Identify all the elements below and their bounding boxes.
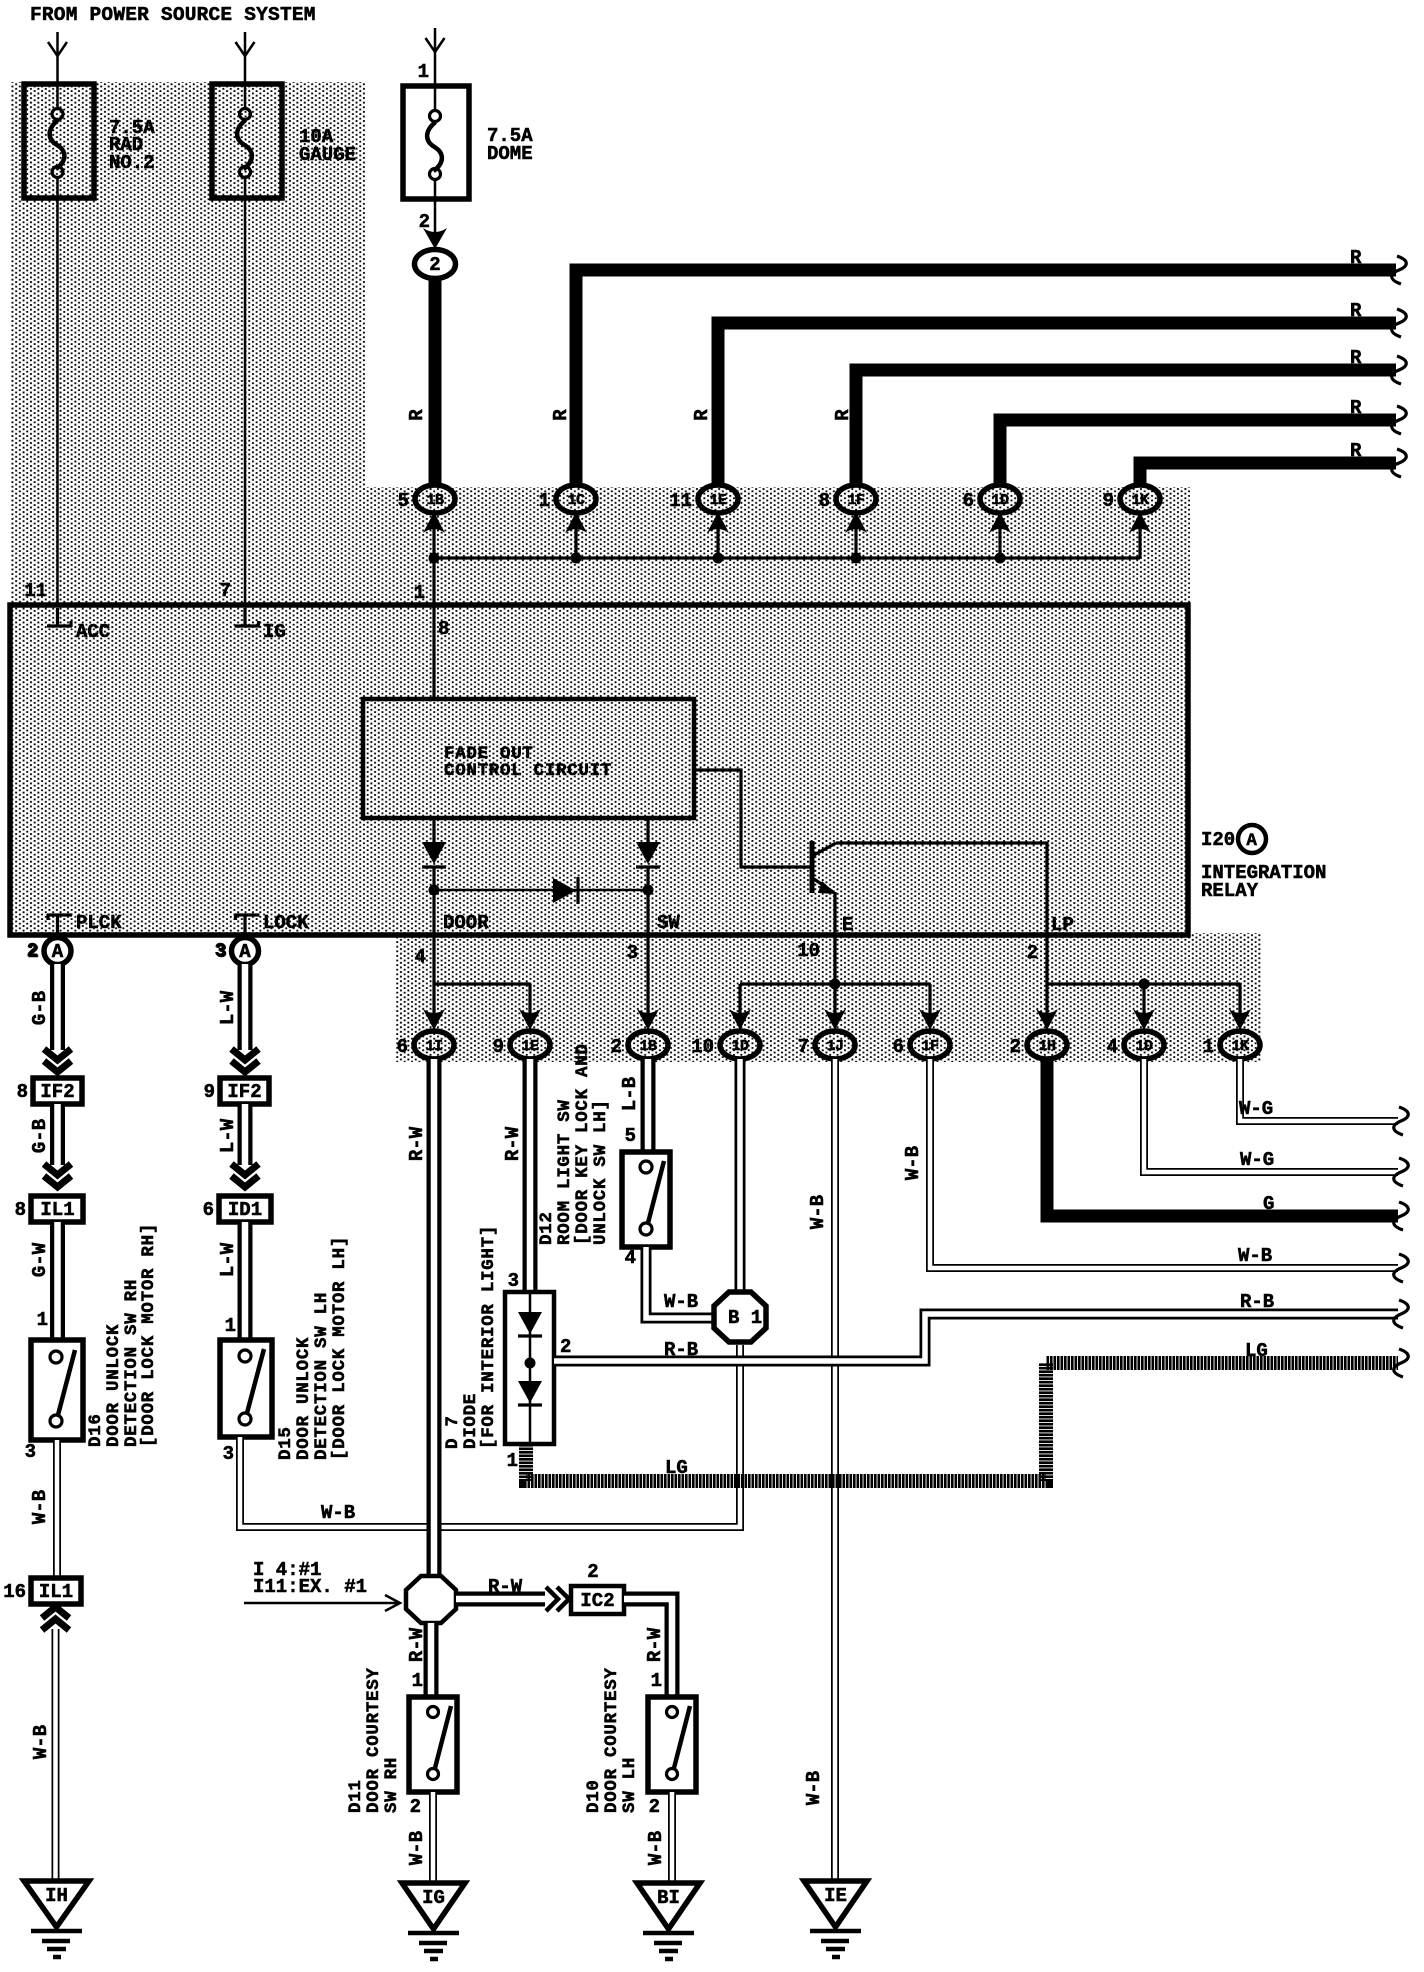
- svg-text:1F: 1F: [921, 1038, 939, 1055]
- svg-text:[DOOR LOCK MOTOR RH]: [DOOR LOCK MOTOR RH]: [139, 1223, 159, 1447]
- diode DI3 internal horizontal: [553, 877, 578, 904]
- svg-text:DOOR: DOOR: [443, 912, 489, 934]
- svg-text:R-W: R-W: [406, 1126, 428, 1161]
- svg-text:DOME: DOME: [487, 143, 533, 165]
- svg-text:2: 2: [611, 1036, 622, 1058]
- svg-text:IF2: IF2: [227, 1081, 261, 1103]
- svg-text:I11:EX. #1: I11:EX. #1: [253, 1576, 367, 1598]
- wire LG D7 pin1 to right edge: [526, 1363, 1398, 1481]
- ground IH: [24, 1881, 89, 1957]
- svg-text:IL1: IL1: [39, 1581, 73, 1603]
- junction dot SW internal: [643, 885, 654, 896]
- wire R to connector 1E: [718, 323, 1396, 487]
- svg-text:6: 6: [893, 1036, 904, 1058]
- svg-text:L-W: L-W: [217, 1118, 239, 1153]
- stem arrowhead into 1E bottom row: [519, 984, 541, 1030]
- svg-text:B 1: B 1: [728, 1307, 762, 1329]
- svg-text:2: 2: [560, 1336, 571, 1358]
- svg-text:1E: 1E: [521, 1038, 539, 1055]
- wire W-B D11 to ground IG: [429, 1792, 437, 1881]
- wire pin 8 to fade out circuit: [432, 605, 435, 701]
- fuse F3 7.5A DOME: [403, 86, 469, 199]
- svg-text:1C: 1C: [567, 492, 585, 509]
- svg-text:1K: 1K: [1131, 492, 1149, 509]
- svg-text:7: 7: [220, 580, 231, 602]
- svg-text:SW LH: SW LH: [620, 1757, 640, 1813]
- diode DI1: [422, 842, 446, 867]
- wire W-B to ground IH: [52, 1629, 60, 1879]
- svg-text:3: 3: [25, 1441, 36, 1463]
- label D10 DOOR COURTESY SW LH: [584, 1667, 640, 1813]
- label FADE OUT CONTROL CIRCUIT: [444, 744, 612, 781]
- chevron arrow into IF2 chain2: [232, 1049, 259, 1072]
- svg-text:1E: 1E: [709, 492, 727, 509]
- svg-text:SW RH: SW RH: [382, 1757, 402, 1813]
- svg-text:1J: 1J: [826, 1038, 843, 1055]
- svg-text:IG: IG: [422, 1887, 445, 1909]
- bus DOOR to 1I and 1E: [434, 982, 530, 985]
- svg-text:6: 6: [203, 1199, 214, 1221]
- stem and arrowhead into 1E: [707, 512, 729, 558]
- svg-text:SW: SW: [657, 912, 680, 934]
- svg-text:A: A: [239, 941, 251, 963]
- svg-text:[FOR INTERIOR LIGHT]: [FOR INTERIOR LIGHT]: [479, 1225, 499, 1449]
- chevron arrow into ID1: [232, 1164, 259, 1187]
- svg-text:R: R: [1350, 347, 1362, 369]
- svg-text:LOCK: LOCK: [263, 912, 309, 934]
- label D15 DOOR UNLOCK DETECTION SW LH: [276, 1236, 350, 1460]
- svg-text:BI: BI: [657, 1887, 680, 1909]
- wire R to connector 1K: [1140, 463, 1396, 487]
- svg-text:16: 16: [3, 1581, 26, 1603]
- wire G 1H to right edge: [1047, 1059, 1398, 1216]
- svg-text:NO.2: NO.2: [109, 152, 155, 174]
- chevron arrow into IL1 chain1: [44, 1164, 71, 1187]
- squiggle end W-G lower: [1394, 1158, 1409, 1186]
- node A circle pin 3 LOCK: [216, 938, 259, 965]
- wire R to connector 1F: [856, 370, 1396, 487]
- wire DI2 cathode to relay pin 3 SW: [646, 867, 649, 935]
- svg-text:R: R: [1350, 440, 1362, 462]
- svg-text:W-B: W-B: [406, 1831, 428, 1865]
- svg-text:W-B: W-B: [321, 1502, 355, 1524]
- svg-text:2: 2: [28, 941, 39, 963]
- wire F2 to relay pin 7: [244, 198, 247, 605]
- stem and arrowhead into 1F: [845, 512, 867, 558]
- svg-text:GAUGE: GAUGE: [299, 144, 356, 166]
- svg-text:1D: 1D: [991, 492, 1009, 509]
- svg-text:R-B: R-B: [664, 1339, 698, 1361]
- value label 7.5A RAD NO.2: [109, 117, 155, 174]
- squiggle end R1: [1392, 256, 1407, 284]
- svg-text:11: 11: [669, 490, 692, 512]
- svg-text:3: 3: [223, 1443, 234, 1465]
- svg-text:G-W: G-W: [29, 1242, 51, 1277]
- connector 1E2 pin 9: [493, 1031, 550, 1059]
- label I 4 pointer text: [253, 1559, 367, 1598]
- wire relay pin4 to bus: [432, 935, 435, 984]
- stem and arrowhead into 1D: [989, 512, 1011, 558]
- wire W-G 1K2 to right edge: [1240, 1059, 1398, 1121]
- wire R-B D7 pin2 to right edge: [554, 1314, 1398, 1361]
- switch D12 room light SW: [622, 1152, 670, 1247]
- chevron arrow up into IL1-16: [42, 1607, 69, 1630]
- wire from power source to fuse F1: [56, 32, 59, 82]
- diode DI2: [636, 842, 660, 867]
- connector 1D4 pin 4: [1107, 1031, 1164, 1059]
- svg-text:3: 3: [216, 941, 227, 963]
- svg-text:RELAY: RELAY: [1201, 880, 1259, 902]
- connector 1D pin 6: [963, 485, 1020, 513]
- wire R-W IC2 to D10: [624, 1599, 672, 1697]
- svg-text:10: 10: [691, 1036, 714, 1058]
- svg-text:L-W: L-W: [217, 990, 239, 1025]
- connector 1F pin 8: [819, 485, 876, 513]
- wire DI1 cathode to relay pin 4 DOOR: [432, 867, 435, 935]
- svg-text:IC2: IC2: [580, 1590, 614, 1612]
- squiggle end R4: [1392, 406, 1407, 434]
- wire G-W IL1 to D16: [50, 1222, 65, 1340]
- wire relay pin10 E down: [833, 935, 836, 1014]
- svg-text:IG: IG: [263, 621, 286, 643]
- wire fade out box to diode DI1 anode: [432, 818, 435, 843]
- wire L-B 1B to D12: [641, 1059, 656, 1152]
- svg-text:G: G: [1263, 1193, 1274, 1215]
- wire between DOOR and SW internal: [434, 889, 648, 892]
- arrowhead into F2: [236, 42, 255, 56]
- svg-text:D16: D16: [86, 1413, 106, 1447]
- wire W-B D16 to IL1-16: [53, 1440, 61, 1578]
- squiggle end LG: [1394, 1349, 1409, 1377]
- svg-text:PLCK: PLCK: [76, 912, 122, 934]
- svg-text:4: 4: [1107, 1036, 1118, 1058]
- svg-text:3: 3: [627, 942, 638, 964]
- wire R-W 1I to junction octagon: [427, 1059, 442, 1576]
- wire from power source to fuse F2: [244, 32, 247, 82]
- svg-text:W-B: W-B: [803, 1771, 825, 1805]
- svg-text:1D: 1D: [731, 1038, 749, 1055]
- svg-text:L-B: L-B: [619, 1077, 641, 1111]
- svg-text:D10: D10: [584, 1779, 604, 1813]
- svg-text:LG: LG: [665, 1457, 688, 1479]
- svg-text:1: 1: [225, 1315, 236, 1337]
- wire R-W octagon to D11: [424, 1623, 439, 1697]
- svg-text:2: 2: [429, 254, 440, 276]
- svg-text:2: 2: [1027, 942, 1038, 964]
- connector node 2 oval: [415, 250, 456, 279]
- svg-text:1: 1: [37, 1309, 48, 1331]
- svg-text:1: 1: [651, 1670, 662, 1692]
- wire W-B D10 to ground BI: [668, 1792, 676, 1881]
- wire W-B D15 pin3 to junction B1 path: [240, 1345, 740, 1527]
- connector 1B2 pin 2: [611, 1031, 668, 1059]
- wire 1D3 to junction B1: [735, 1059, 746, 1293]
- svg-text:8: 8: [17, 1081, 28, 1103]
- stem arrowhead into 1D bottom: [729, 984, 751, 1030]
- connector 1K pin 9: [1103, 485, 1160, 513]
- svg-text:8: 8: [438, 618, 449, 640]
- svg-text:1D: 1D: [1135, 1038, 1153, 1055]
- shade region top-left block: [10, 82, 365, 605]
- pin PLCK tick: [47, 914, 72, 933]
- svg-text:L-W: L-W: [217, 1242, 239, 1277]
- wire L-W IF2 to ID1: [238, 1104, 253, 1165]
- wire F3 pin2 to connector node 2: [434, 199, 437, 234]
- junction dot pin10 bus: [830, 979, 841, 990]
- chevron arrow into IF2 chain1: [44, 1049, 71, 1072]
- svg-text:W-B: W-B: [1238, 1245, 1272, 1267]
- connector 1K2 pin 1: [1203, 1031, 1260, 1059]
- svg-text:DETECTION SW LH: DETECTION SW LH: [312, 1292, 332, 1460]
- svg-text:5: 5: [625, 1125, 636, 1147]
- svg-text:6: 6: [963, 490, 974, 512]
- squiggle end W-G upper: [1394, 1107, 1409, 1135]
- fuse F2 10A GAUGE: [212, 84, 282, 198]
- svg-text:4: 4: [415, 946, 426, 968]
- stem arrowhead into 1I: [423, 984, 445, 1030]
- wire R-W 1E to diode D7: [523, 1059, 538, 1292]
- arrowhead into F1: [48, 42, 67, 56]
- svg-text:ACC: ACC: [76, 621, 110, 643]
- label D11 DOOR COURTESY SW RH: [346, 1667, 402, 1813]
- label I20 circled A INTEGRATION RELAY: [1201, 825, 1326, 902]
- svg-text:R-W: R-W: [502, 1126, 524, 1161]
- stem arrowhead into 1D2: [1133, 984, 1155, 1030]
- stem arrowhead into 1K bottom: [1229, 984, 1251, 1030]
- shade region band above integration relay: [365, 487, 1190, 605]
- svg-text:I20: I20: [1201, 829, 1235, 851]
- svg-text:R-B: R-B: [1240, 1291, 1274, 1313]
- svg-text:R-W: R-W: [644, 1627, 666, 1662]
- svg-text:W-B: W-B: [645, 1831, 667, 1865]
- bus E to 1D and 1F: [740, 982, 930, 985]
- junction block IF2 pin 9 chain2: [204, 1078, 269, 1104]
- stem and arrowhead into 1C: [565, 512, 587, 558]
- relay I20 integration relay box: [10, 605, 1188, 935]
- svg-text:5: 5: [398, 490, 409, 512]
- ground IE: [804, 1881, 867, 1957]
- svg-text:3: 3: [508, 1270, 519, 1292]
- svg-text:ID1: ID1: [228, 1199, 262, 1221]
- wire W-B 1J to ground IE: [831, 1059, 839, 1879]
- shade region band below integration relay: [396, 933, 1261, 1062]
- wire R from node 2 to connector 1B: [429, 278, 442, 486]
- pointer arrow to junction octagon: [244, 1595, 400, 1611]
- squiggle end G: [1394, 1202, 1409, 1230]
- wire L-W ID1 to D15: [238, 1222, 253, 1340]
- svg-text:W-B: W-B: [664, 1291, 698, 1313]
- svg-text:FROM POWER SOURCE SYSTEM: FROM POWER SOURCE SYSTEM: [30, 4, 316, 26]
- stem and arrowhead into 1B: [423, 512, 445, 558]
- connector 1D3 pin 10: [691, 1031, 760, 1059]
- svg-text:LP: LP: [1051, 914, 1074, 936]
- svg-text:1: 1: [412, 1670, 423, 1692]
- junction octagon node: [406, 1576, 456, 1623]
- squiggle end R5: [1392, 449, 1407, 477]
- squiggle end R3: [1392, 356, 1407, 384]
- svg-text:W-B: W-B: [30, 1725, 52, 1759]
- svg-text:R: R: [406, 409, 428, 421]
- label D12 ROOM LIGHT SW: [537, 1043, 611, 1245]
- svg-text:7: 7: [798, 1036, 809, 1058]
- svg-text:IF2: IF2: [40, 1081, 74, 1103]
- junction block IF2 pin 8 chain1: [17, 1078, 82, 1104]
- svg-text:8: 8: [819, 490, 830, 512]
- junction dot 1D2 bus: [1139, 979, 1150, 990]
- svg-text:CONTROL CIRCUIT: CONTROL CIRCUIT: [444, 761, 612, 781]
- svg-text:2: 2: [1010, 1036, 1021, 1058]
- svg-text:R: R: [1350, 397, 1362, 419]
- svg-text:1F: 1F: [847, 492, 865, 509]
- svg-text:W-G: W-G: [1239, 1098, 1273, 1120]
- wire fade out box to diode DI2 anode: [646, 818, 649, 843]
- wire relay pin2 LP down: [1045, 935, 1048, 1014]
- svg-text:R: R: [1350, 247, 1362, 269]
- wire fade out box to transistor base: [694, 770, 810, 867]
- svg-text:1K: 1K: [1231, 1038, 1249, 1055]
- wire L-W from A to IF2 chain2: [238, 964, 253, 1050]
- wire R to connector 1D: [1000, 420, 1396, 487]
- wire transistor emitter to relay pin 10 E: [833, 892, 836, 935]
- svg-text:1: 1: [1203, 1036, 1214, 1058]
- svg-text:10: 10: [797, 940, 820, 962]
- junction dot 1F bus: [851, 553, 862, 564]
- svg-text:D12: D12: [537, 1211, 557, 1245]
- svg-text:1B: 1B: [426, 492, 444, 509]
- svg-text:R: R: [691, 409, 713, 421]
- svg-text:1: 1: [414, 582, 425, 604]
- svg-text:R: R: [1350, 300, 1362, 322]
- junction block IL1 pin 8: [15, 1196, 83, 1222]
- value label 10A GAUGE: [299, 126, 356, 166]
- svg-text:1: 1: [507, 1450, 518, 1472]
- squiggle end R2: [1392, 309, 1407, 337]
- svg-text:DOOR COURTESY: DOOR COURTESY: [364, 1667, 384, 1813]
- wire R-W octagon to IC2: [456, 1592, 545, 1607]
- junction dot 1E bus: [713, 553, 724, 564]
- ground IG: [402, 1883, 465, 1959]
- arrowhead into 1J: [824, 1009, 846, 1030]
- stem and arrowhead into 1K: [1129, 512, 1151, 558]
- wire W-B D12 pin4 to junction B1: [646, 1247, 714, 1318]
- junction dot 1C bus: [571, 553, 582, 564]
- junction block IL1 pin 16: [3, 1578, 81, 1604]
- svg-text:DOOR COURTESY: DOOR COURTESY: [602, 1667, 622, 1813]
- svg-text:IE: IE: [824, 1885, 847, 1907]
- svg-text:DOOR UNLOCK: DOOR UNLOCK: [104, 1324, 124, 1447]
- svg-text:A: A: [52, 941, 64, 963]
- arrowhead into 1H: [1036, 1009, 1058, 1030]
- wire W-B 1F2 to right edge: [930, 1059, 1398, 1268]
- fade out control circuit box: [363, 699, 694, 818]
- connector 1E pin 11: [669, 485, 738, 513]
- svg-text:DIODE: DIODE: [461, 1393, 481, 1449]
- svg-text:2: 2: [587, 1561, 598, 1583]
- svg-text:6: 6: [397, 1036, 408, 1058]
- squiggle end R-B: [1394, 1300, 1409, 1328]
- svg-text:G-B: G-B: [29, 991, 51, 1025]
- switch D15 door unlock detection SW LH: [220, 1340, 272, 1437]
- svg-text:R: R: [832, 409, 854, 421]
- switch D16 door unlock detection SW RH: [31, 1340, 83, 1440]
- svg-text:R-W: R-W: [488, 1576, 523, 1598]
- fuse F1 7.5A RAD NO.2: [24, 84, 94, 198]
- value label 7.5A DOME: [487, 125, 533, 165]
- connector 1I pin 6: [397, 1031, 454, 1059]
- pin IG tick: [235, 608, 260, 627]
- svg-text:1H: 1H: [1038, 1038, 1055, 1055]
- bus line under top connector row: [434, 556, 1140, 559]
- squiggle end W-B: [1394, 1254, 1409, 1282]
- junction dot 1D bus: [995, 553, 1006, 564]
- wire G-B from A to IF2: [50, 964, 65, 1050]
- svg-text:R-W: R-W: [406, 1627, 428, 1662]
- junction dot 1B bus: [429, 553, 440, 564]
- wire R to connector 1C: [576, 270, 1396, 487]
- node A circle pin 2 PLCK: [28, 938, 71, 965]
- svg-text:9: 9: [493, 1036, 504, 1058]
- wire F1 to relay pin 11: [56, 198, 59, 605]
- connector 1H pin 2: [1010, 1031, 1067, 1059]
- svg-text:G-B: G-B: [29, 1119, 51, 1153]
- arrowhead into F3: [426, 38, 445, 52]
- junction block IC2 pin 2: [571, 1561, 624, 1614]
- svg-text:[DOOR KEY LOCK AND: [DOOR KEY LOCK AND: [573, 1043, 593, 1245]
- label D 7 DIODE FOR INTERIOR LIGHT: [443, 1225, 499, 1449]
- connector 1B pin 5: [398, 485, 455, 513]
- pin ACC tick: [47, 608, 72, 627]
- transistor Q1: [812, 841, 836, 894]
- svg-text:ROOM LIGHT SW: ROOM LIGHT SW: [555, 1099, 575, 1245]
- svg-text:IH: IH: [45, 1885, 68, 1907]
- svg-text:LG: LG: [1245, 1340, 1268, 1362]
- shade region integration relay interior: [10, 605, 1188, 935]
- connector 1C pin 1: [539, 485, 596, 513]
- wire relay pin3 SW to 1B: [637, 935, 659, 1030]
- svg-text:D15: D15: [276, 1426, 296, 1460]
- switch D10 door courtesy SW LH: [648, 1697, 696, 1792]
- wire bus down to relay pin 8: [432, 558, 435, 605]
- chevron arrow into IC2: [546, 1587, 569, 1611]
- diode D7 for interior light: [505, 1292, 554, 1444]
- junction dot DOOR internal: [429, 885, 440, 896]
- svg-text:A: A: [1246, 831, 1257, 851]
- junction B1 octagon: [714, 1292, 766, 1342]
- wire from power source to fuse F3: [434, 28, 437, 85]
- svg-text:9: 9: [1103, 490, 1114, 512]
- connector 1F2 pin 6: [893, 1031, 950, 1059]
- ground BI: [637, 1883, 700, 1959]
- svg-text:1B: 1B: [639, 1038, 657, 1055]
- svg-text:W-B: W-B: [807, 1195, 829, 1229]
- pin LOCK tick: [235, 914, 260, 933]
- svg-text:D11: D11: [346, 1779, 366, 1813]
- svg-text:2: 2: [410, 1796, 421, 1818]
- junction block ID1 pin 6: [203, 1196, 271, 1222]
- svg-text:1: 1: [539, 490, 550, 512]
- switch D11 door courtesy SW RH: [409, 1697, 457, 1792]
- svg-text:W-B: W-B: [29, 1490, 51, 1524]
- svg-text:E: E: [842, 914, 853, 936]
- bus LP to 1D2 and 1K: [1047, 982, 1240, 985]
- wire G-B IF2 to IL1: [50, 1104, 65, 1165]
- stem arrowhead into 1F bottom: [919, 984, 941, 1030]
- svg-text:9: 9: [204, 1081, 215, 1103]
- svg-text:4: 4: [625, 1247, 636, 1269]
- svg-text:D 7: D 7: [443, 1415, 463, 1449]
- label D16 DOOR UNLOCK DETECTION SW RH: [86, 1223, 159, 1447]
- connector 1J pin 7: [798, 1031, 855, 1059]
